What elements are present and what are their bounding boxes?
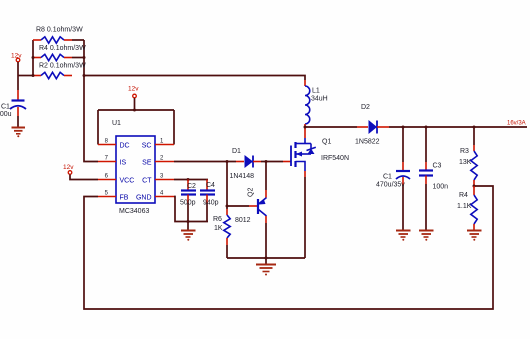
diode D2 1N5822 (355, 104, 389, 146)
wire output rail left (305, 126, 357, 128)
svg-text:470u/35v: 470u/35v (376, 182, 405, 189)
node 12V input terminal (16, 58, 20, 62)
svg-text:C1: C1 (1, 104, 10, 111)
pin 3 CT (142, 174, 174, 185)
svg-text:8012: 8012 (235, 217, 251, 224)
svg-text:8: 8 (105, 139, 109, 145)
svg-text:1.1K: 1.1K (457, 203, 472, 210)
svg-text:DC: DC (120, 143, 130, 150)
wire left bus of resistor bank (32, 40, 34, 76)
capacitor C2 500p (180, 180, 196, 222)
transistor Q1 IRF540N (283, 138, 349, 171)
wire FB feedback loop bottom (84, 186, 493, 309)
wire top rail to inductor (84, 76, 305, 81)
svg-text:SC: SC (142, 143, 152, 150)
svg-text:13K: 13K (459, 159, 472, 166)
node 12V above U1 label (128, 86, 139, 93)
svg-text:GND: GND (136, 195, 152, 202)
svg-text:Q2: Q2 (248, 188, 255, 197)
capacitor C3 100n (419, 126, 448, 231)
svg-text:CT: CT (142, 178, 152, 185)
svg-text:7: 7 (105, 156, 109, 162)
ground under Q2 (256, 258, 276, 276)
svg-text:C4: C4 (206, 182, 215, 189)
svg-text:100u: 100u (0, 111, 12, 118)
wire output rail right (389, 126, 527, 128)
node 12V input label (11, 53, 22, 60)
capacitor C1 input (0, 76, 26, 127)
node 12V VCC label (63, 164, 74, 171)
svg-text:940p: 940p (203, 200, 219, 207)
capacitor C1 output 470u (376, 126, 410, 231)
resistor R3 13K (459, 126, 477, 187)
svg-text:5: 5 (105, 191, 109, 197)
pin 7 IS (98, 156, 126, 167)
svg-text:FB: FB (120, 195, 129, 202)
resistor R4 (33, 45, 86, 61)
svg-text:16v/3A: 16v/3A (507, 121, 526, 127)
wire bottom rail under Q2 (227, 257, 305, 260)
pin 2 SE (142, 156, 174, 167)
svg-text:IRF540N: IRF540N (321, 155, 349, 162)
junction node switch (304, 126, 307, 129)
svg-text:D2: D2 (361, 104, 370, 111)
svg-text:C1: C1 (383, 174, 392, 181)
junction node feedback divider (473, 185, 476, 188)
resistor R2 (33, 63, 86, 79)
resistor R4 1.1K (457, 186, 477, 230)
svg-text:2: 2 (160, 156, 164, 162)
pin 6 VCC (98, 174, 134, 185)
pin 4 GND (136, 191, 174, 202)
svg-text:D1: D1 (232, 148, 241, 155)
svg-text:R2 0.1ohm/3W: R2 0.1ohm/3W (39, 63, 86, 70)
pin 5 FB (98, 191, 129, 202)
wire D1 to gate (261, 161, 283, 163)
svg-text:R4: R4 (459, 192, 468, 199)
wire CT rail (174, 178, 208, 181)
svg-text:C3: C3 (433, 163, 442, 170)
junction dots resistor bank (32, 56, 86, 77)
pin 8 DC (98, 139, 130, 150)
svg-text:R6: R6 (213, 216, 222, 223)
ground under C1 output (396, 231, 411, 241)
junction node SE column (226, 160, 229, 163)
svg-text:34uH: 34uH (311, 96, 328, 103)
wire 12V stem (17, 62, 19, 76)
wire pin 4 to cap bottom rail (174, 197, 208, 224)
svg-text:100n: 100n (433, 184, 449, 191)
ground under C3 (419, 231, 434, 241)
node output label (507, 121, 526, 127)
resistor R8 (33, 27, 84, 44)
wire Q2 collector down to ground rail (265, 216, 267, 258)
wire right bus of resistor bank to pin 7 (84, 40, 98, 162)
wire Q1 source to bottom rail (304, 171, 306, 258)
wire 12V to resistor bank (18, 75, 33, 77)
svg-text:SE: SE (142, 160, 152, 167)
svg-text:12v: 12v (128, 86, 139, 93)
svg-text:3: 3 (160, 174, 164, 180)
wire 12V tee to pins 8 and 1 (98, 98, 174, 145)
resistor R6 1K (213, 206, 230, 258)
ground under R4 (467, 231, 482, 241)
svg-text:1K: 1K (214, 225, 223, 232)
svg-text:R3: R3 (460, 148, 469, 155)
svg-text:1N4148: 1N4148 (230, 173, 255, 180)
svg-text:12v: 12v (63, 164, 74, 171)
svg-text:R4 0.1ohm/3W: R4 0.1ohm/3W (39, 45, 86, 52)
svg-text:1: 1 (160, 139, 164, 145)
svg-text:VCC: VCC (120, 178, 135, 185)
node 12V VCC terminal (68, 171, 72, 175)
ground under C2 C4 (181, 222, 196, 241)
op-amp U1 MC34063 box (112, 120, 155, 215)
svg-text:IS: IS (120, 160, 127, 167)
wire SE junction down to base node (226, 162, 228, 207)
svg-text:L1: L1 (312, 88, 320, 95)
svg-text:1N5822: 1N5822 (355, 139, 380, 146)
svg-text:U1: U1 (112, 120, 121, 127)
diode D1 1N4148 (230, 148, 262, 180)
inductor L1 34uH (305, 80, 328, 127)
wire SE to D1 (174, 161, 236, 163)
capacitor C4 940p (200, 180, 219, 222)
wire Q1 drain lead (304, 127, 306, 138)
svg-text:4: 4 (160, 191, 164, 197)
wire base node to Q2 base (227, 205, 258, 207)
svg-text:MC34063: MC34063 (119, 208, 149, 215)
wire Q2 emitter up to gate wire (265, 162, 267, 198)
svg-text:C2: C2 (187, 183, 196, 190)
transistor Q2 8012 (235, 188, 267, 224)
svg-text:500p: 500p (180, 200, 196, 207)
pin 1 SC (142, 139, 174, 150)
wire VCC terminal to pin 6 (70, 175, 98, 180)
node 12V above U1 terminal (133, 94, 137, 98)
svg-text:R8 0.1ohm/3W: R8 0.1ohm/3W (36, 27, 83, 34)
junction node emitter column (265, 160, 268, 163)
junction node base (226, 205, 229, 208)
svg-text:Q1: Q1 (322, 139, 331, 146)
ground at C1 (12, 128, 26, 138)
svg-text:6: 6 (105, 174, 109, 180)
